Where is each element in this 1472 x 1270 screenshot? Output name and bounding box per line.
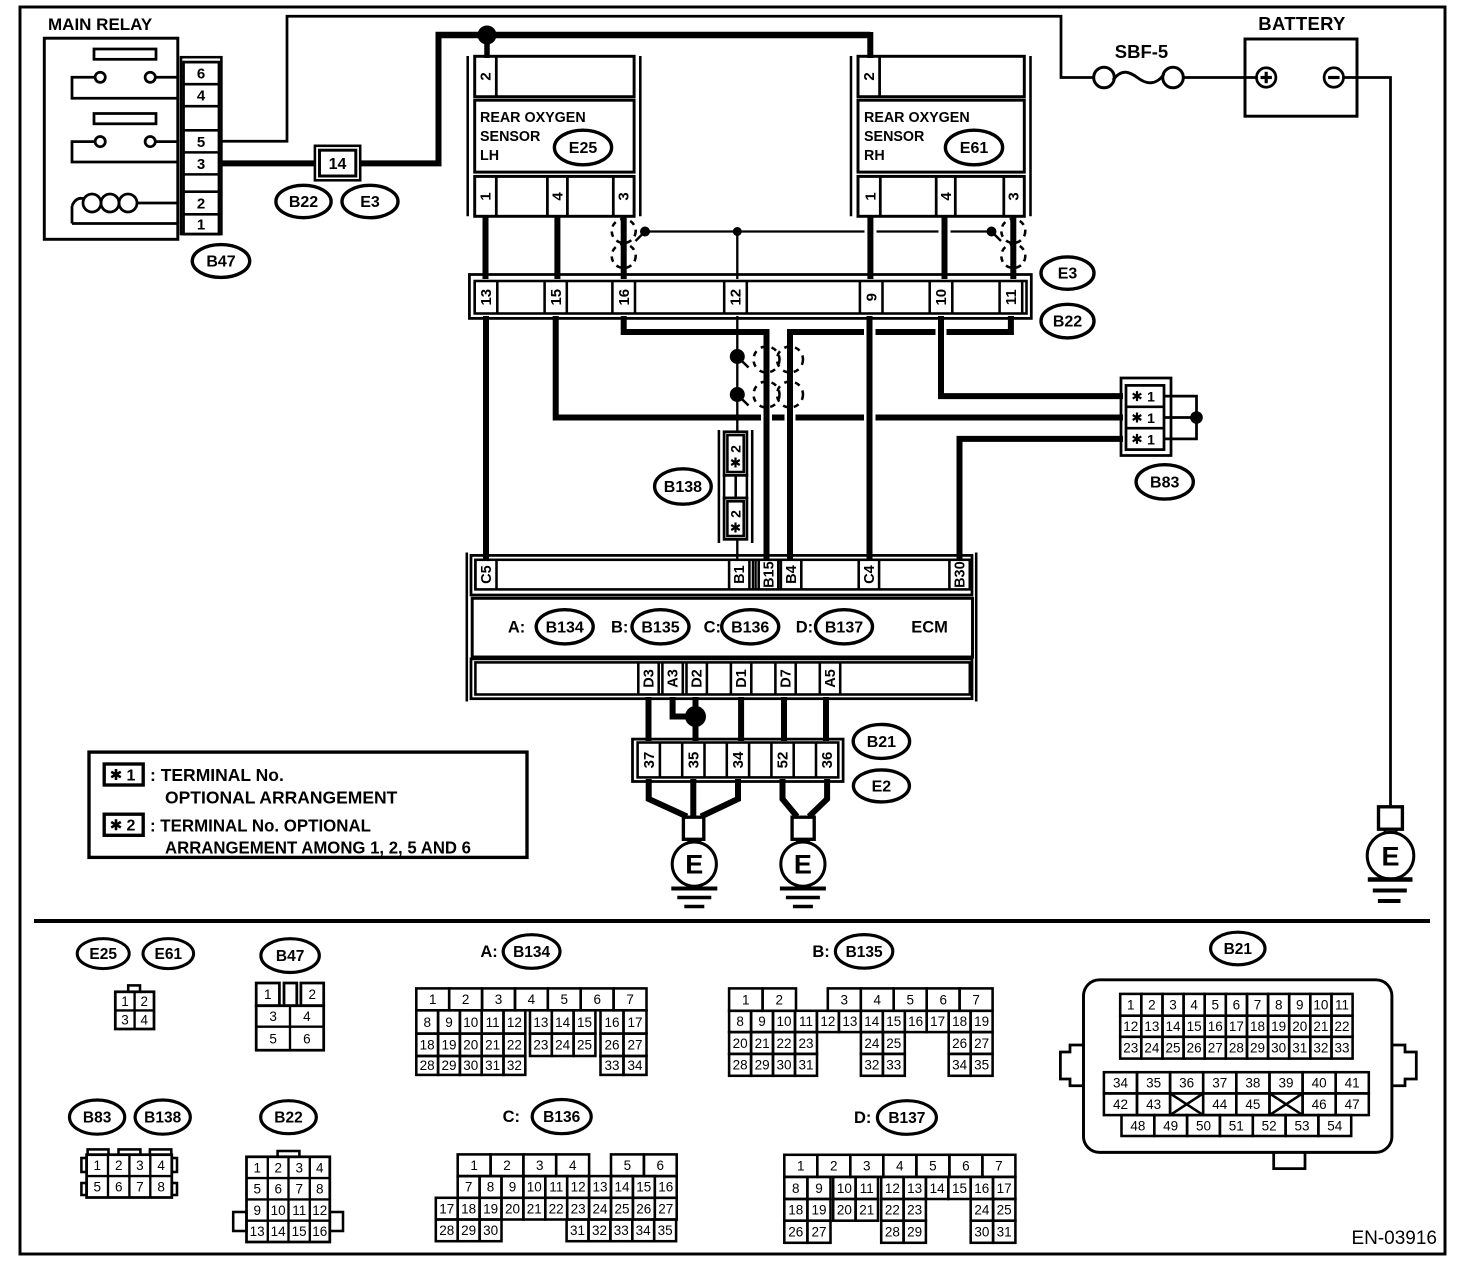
strip pin 11 xyxy=(998,281,1001,314)
svg-text:30: 30 xyxy=(776,1058,791,1073)
svg-text:2: 2 xyxy=(503,1158,511,1173)
svg-text:31: 31 xyxy=(570,1223,585,1238)
svg-text:16: 16 xyxy=(604,1015,619,1030)
svg-text:REAR OXYGEN: REAR OXYGEN xyxy=(864,110,970,126)
relay coil xyxy=(72,206,178,224)
svg-text:5: 5 xyxy=(624,1158,632,1173)
svg-text:14: 14 xyxy=(329,156,347,173)
svg-text:34: 34 xyxy=(1113,1076,1129,1091)
svg-text:12: 12 xyxy=(312,1203,327,1218)
junction dot A3/D2 xyxy=(685,706,706,727)
svg-text:E3: E3 xyxy=(360,194,380,211)
B138 middle cells xyxy=(724,475,747,498)
in-line connector B138 brackets xyxy=(718,430,721,543)
svg-text:ECM: ECM xyxy=(911,619,948,637)
svg-text:52: 52 xyxy=(775,752,792,769)
svg-text:5: 5 xyxy=(197,134,205,151)
ECM main box xyxy=(472,598,972,657)
svg-text:BATTERY: BATTERY xyxy=(1258,13,1346,34)
svg-text:1: 1 xyxy=(429,992,437,1007)
svg-text:7: 7 xyxy=(295,1182,303,1197)
ECM pin A5 xyxy=(819,662,822,694)
sensor E61 top connector pin 2 xyxy=(858,56,1024,96)
ground symbol E (battery) xyxy=(1379,807,1403,829)
svg-text:40: 40 xyxy=(1312,1076,1327,1091)
svg-text:25: 25 xyxy=(1165,1041,1180,1056)
svg-text:11: 11 xyxy=(1003,289,1020,305)
svg-text:32: 32 xyxy=(1313,1041,1328,1056)
svg-text:10: 10 xyxy=(933,289,950,306)
svg-text:37: 37 xyxy=(1212,1076,1227,1091)
svg-text:31: 31 xyxy=(997,1225,1012,1240)
svg-text:A:: A: xyxy=(508,619,525,637)
svg-text:MAIN RELAY: MAIN RELAY xyxy=(48,15,153,34)
svg-text:1: 1 xyxy=(1147,431,1155,447)
svg-text:RH: RH xyxy=(864,148,885,164)
svg-text:1: 1 xyxy=(478,192,495,200)
wire ECM D7 to 52 xyxy=(781,697,787,741)
svg-text:4: 4 xyxy=(303,1009,311,1024)
svg-text:A3: A3 xyxy=(666,669,682,688)
svg-text:6: 6 xyxy=(962,1159,970,1174)
svg-text:16: 16 xyxy=(312,1224,327,1239)
svg-text:2: 2 xyxy=(478,72,495,80)
svg-text:D7: D7 xyxy=(778,669,794,688)
junction dot on wire 12 lower xyxy=(730,387,745,402)
svg-text:B135: B135 xyxy=(641,619,679,636)
svg-text:B83: B83 xyxy=(1150,474,1179,491)
connector label B47 xyxy=(192,245,249,278)
main relay box xyxy=(44,38,178,239)
svg-text:10: 10 xyxy=(837,1181,852,1196)
B138 upper cell *2 xyxy=(724,432,747,476)
svg-text:34: 34 xyxy=(730,751,747,768)
svg-text:2: 2 xyxy=(462,992,470,1007)
wire bus to RH sensor pin 2 xyxy=(867,32,873,58)
svg-text:1: 1 xyxy=(264,987,272,1002)
svg-text:3: 3 xyxy=(1169,998,1177,1013)
svg-text:22: 22 xyxy=(507,1038,522,1053)
svg-text:2: 2 xyxy=(830,1159,838,1174)
svg-text:B:: B: xyxy=(611,619,628,637)
svg-text:11: 11 xyxy=(486,1015,500,1030)
svg-text:B:: B: xyxy=(812,943,829,961)
svg-text:25: 25 xyxy=(997,1203,1012,1218)
svg-text:32: 32 xyxy=(864,1058,879,1073)
svg-text:16: 16 xyxy=(616,289,633,306)
svg-text:17: 17 xyxy=(1229,1019,1244,1034)
B21 right ear xyxy=(1392,1045,1416,1086)
svg-text:15: 15 xyxy=(886,1014,901,1029)
svg-text:49: 49 xyxy=(1163,1118,1178,1133)
svg-text:C:: C: xyxy=(503,1108,520,1126)
svg-text:12: 12 xyxy=(571,1180,586,1195)
pin table A: B134 xyxy=(416,988,646,1075)
svg-text:2: 2 xyxy=(861,72,878,80)
svg-text:B22: B22 xyxy=(1053,314,1082,331)
svg-text:B22: B22 xyxy=(289,194,318,211)
svg-text:25: 25 xyxy=(577,1038,592,1053)
B21 pin grid bottom xyxy=(1104,1072,1369,1136)
connector B21 housing xyxy=(1084,980,1392,1153)
svg-text:1: 1 xyxy=(1147,410,1155,426)
svg-text:B134: B134 xyxy=(546,619,584,636)
svg-text:D:: D: xyxy=(796,619,813,637)
ECM top connector strip xyxy=(471,555,972,595)
wire ECM D3 to 37 xyxy=(646,697,652,741)
svg-text:17: 17 xyxy=(930,1014,945,1029)
svg-text:10: 10 xyxy=(271,1203,286,1218)
relay contact circles row 2 xyxy=(95,137,105,147)
svg-text:15: 15 xyxy=(636,1180,651,1195)
svg-text:B134: B134 xyxy=(513,944,550,961)
svg-text:44: 44 xyxy=(1212,1097,1228,1112)
svg-text:5: 5 xyxy=(1212,998,1220,1013)
sensor body E61 xyxy=(858,100,1024,172)
svg-text:3: 3 xyxy=(269,1009,277,1024)
svg-text:29: 29 xyxy=(441,1058,456,1073)
ECM pin A3 xyxy=(661,662,664,694)
power bus wire (top) xyxy=(436,32,871,39)
svg-text:9: 9 xyxy=(509,1180,517,1195)
svg-text:B21: B21 xyxy=(1224,941,1253,958)
wire LH pin 1 to strip 13 xyxy=(483,215,489,279)
pin table E25/E61 xyxy=(115,985,154,1029)
svg-text:1: 1 xyxy=(863,192,880,200)
connector label B47 (bottom) xyxy=(261,939,319,973)
pin table B22 xyxy=(233,1151,343,1242)
svg-text:29: 29 xyxy=(1250,1041,1265,1056)
svg-text:3: 3 xyxy=(863,1159,871,1174)
svg-text:15: 15 xyxy=(1187,1019,1202,1034)
svg-text:14: 14 xyxy=(555,1015,571,1030)
in-line connector symbol on B15 wire xyxy=(754,347,780,373)
svg-text:4: 4 xyxy=(938,192,955,201)
svg-text:24: 24 xyxy=(864,1036,880,1051)
svg-text:35: 35 xyxy=(686,752,703,769)
svg-text:3: 3 xyxy=(295,1160,303,1175)
wire strip 11 to ECM B4 xyxy=(790,316,1011,560)
svg-text:32: 32 xyxy=(507,1058,522,1073)
svg-text:28: 28 xyxy=(420,1058,435,1073)
svg-text:35: 35 xyxy=(658,1223,673,1238)
svg-text:20: 20 xyxy=(505,1202,520,1217)
svg-text:A:: A: xyxy=(480,943,497,961)
svg-text:27: 27 xyxy=(974,1036,989,1051)
svg-text:8: 8 xyxy=(316,1182,324,1197)
svg-text:D1: D1 xyxy=(734,669,750,688)
svg-text:11: 11 xyxy=(292,1203,306,1218)
svg-text:2: 2 xyxy=(274,1160,282,1175)
svg-text:B1: B1 xyxy=(732,565,748,584)
ECM pin B1 xyxy=(728,560,731,590)
connector label B83 xyxy=(1136,465,1193,499)
svg-text:12: 12 xyxy=(728,289,745,306)
svg-text:51: 51 xyxy=(1229,1118,1244,1133)
svg-text:28: 28 xyxy=(733,1058,748,1073)
svg-text:27: 27 xyxy=(811,1225,826,1240)
svg-text:1: 1 xyxy=(197,217,205,234)
connector label B22 (strip) xyxy=(1041,304,1094,338)
svg-text:6: 6 xyxy=(1233,998,1241,1013)
svg-text:47: 47 xyxy=(1345,1097,1360,1112)
svg-text:OPTIONAL ARRANGEMENT: OPTIONAL ARRANGEMENT xyxy=(165,787,398,807)
svg-text:7: 7 xyxy=(972,992,980,1007)
B21 pin grid top xyxy=(1120,994,1352,1059)
svg-text:46: 46 xyxy=(1312,1097,1327,1112)
svg-text:31: 31 xyxy=(1292,1041,1307,1056)
svg-text:B135: B135 xyxy=(846,944,883,961)
fuse SBF-5 xyxy=(1094,67,1115,88)
svg-text:1: 1 xyxy=(127,768,136,785)
svg-text:15: 15 xyxy=(577,1015,592,1030)
svg-text:1: 1 xyxy=(94,1158,102,1173)
svg-text:24: 24 xyxy=(592,1202,608,1217)
svg-text:23: 23 xyxy=(571,1202,586,1217)
svg-text:8: 8 xyxy=(423,1015,431,1030)
svg-text:14: 14 xyxy=(864,1014,880,1029)
svg-text:B22: B22 xyxy=(274,1110,302,1127)
svg-text:22: 22 xyxy=(1334,1019,1349,1034)
ECM pin C4 xyxy=(857,560,860,590)
svg-text:16: 16 xyxy=(658,1180,673,1195)
connector label B22 (bottom) xyxy=(261,1101,317,1134)
battery box xyxy=(1245,39,1357,116)
svg-text:3: 3 xyxy=(841,992,849,1007)
svg-text:48: 48 xyxy=(1130,1118,1145,1133)
svg-text:2: 2 xyxy=(115,1158,123,1173)
ECM pin D1 xyxy=(730,662,733,694)
svg-text:1: 1 xyxy=(121,994,129,1009)
wire LH pin 4 to strip 15 xyxy=(554,215,560,279)
svg-text:: TERMINAL No.: : TERMINAL No. xyxy=(150,765,284,785)
svg-text:10: 10 xyxy=(776,1014,791,1029)
svg-text:13: 13 xyxy=(250,1224,265,1239)
svg-text:9: 9 xyxy=(1296,998,1304,1013)
sensor body E25 xyxy=(475,100,634,172)
svg-text:39: 39 xyxy=(1278,1076,1293,1091)
svg-text:13: 13 xyxy=(842,1014,857,1029)
svg-text:22: 22 xyxy=(885,1203,900,1218)
svg-text:6: 6 xyxy=(274,1182,282,1197)
svg-text:5: 5 xyxy=(269,1031,277,1046)
svg-text:2: 2 xyxy=(776,992,784,1007)
svg-text:9: 9 xyxy=(815,1181,823,1196)
sensor E25 bottom connector pins 1 4 3 xyxy=(475,176,634,216)
battery plus terminal xyxy=(1257,68,1276,87)
svg-text:6: 6 xyxy=(657,1158,665,1173)
relay contact wire row 2 xyxy=(72,142,178,162)
in-line connector 14 xyxy=(315,146,360,181)
svg-text:E: E xyxy=(685,850,703,880)
svg-text:18: 18 xyxy=(1250,1019,1265,1034)
svg-text:15: 15 xyxy=(548,289,565,306)
svg-text:D2: D2 xyxy=(690,669,706,688)
connector B83 cells *1 xyxy=(1126,385,1164,449)
svg-text:6: 6 xyxy=(939,992,947,1007)
relay contact bar 2 xyxy=(94,114,156,124)
svg-text:1: 1 xyxy=(742,992,750,1007)
svg-text:5: 5 xyxy=(561,992,569,1007)
svg-text:27: 27 xyxy=(658,1202,673,1217)
svg-text:2: 2 xyxy=(127,818,136,835)
svg-text:15: 15 xyxy=(952,1181,967,1196)
svg-text:16: 16 xyxy=(974,1181,989,1196)
svg-text:23: 23 xyxy=(533,1038,548,1053)
wire RH pin 1 to strip 9 xyxy=(867,215,873,279)
svg-text:21: 21 xyxy=(859,1203,874,1218)
legend *2 symbol xyxy=(104,814,143,835)
svg-text:19: 19 xyxy=(1271,1019,1286,1034)
svg-text:13: 13 xyxy=(478,289,495,306)
connector B47 strip xyxy=(181,57,221,234)
svg-text:10: 10 xyxy=(463,1015,478,1030)
svg-text:27: 27 xyxy=(1208,1041,1223,1056)
svg-text:52: 52 xyxy=(1262,1118,1277,1133)
sensor E61 bottom connector pins 1 4 3 xyxy=(858,176,1024,216)
wire ECM A5 to 36 xyxy=(823,697,829,741)
wire RH pin 4 to strip 10 xyxy=(942,215,948,279)
svg-text:A5: A5 xyxy=(823,669,839,688)
svg-text:C4: C4 xyxy=(862,565,878,584)
svg-text:1: 1 xyxy=(797,1159,805,1174)
svg-text:8: 8 xyxy=(792,1181,800,1196)
svg-text:25: 25 xyxy=(614,1202,629,1217)
svg-text:5: 5 xyxy=(94,1180,102,1195)
svg-text:29: 29 xyxy=(755,1058,770,1073)
connector strip B22/E3 xyxy=(469,275,1031,319)
svg-text:24: 24 xyxy=(974,1203,990,1218)
svg-text:26: 26 xyxy=(604,1038,619,1053)
svg-text:2: 2 xyxy=(141,994,149,1009)
svg-text:B21: B21 xyxy=(867,734,896,751)
ECM pin B4 xyxy=(780,560,783,590)
svg-text:23: 23 xyxy=(907,1203,922,1218)
svg-text:1: 1 xyxy=(1147,389,1155,405)
svg-text:REAR OXYGEN: REAR OXYGEN xyxy=(480,110,586,126)
ECM pin B15 xyxy=(757,560,760,590)
svg-text:4: 4 xyxy=(197,88,206,105)
svg-text:9: 9 xyxy=(758,1014,766,1029)
svg-text:B138: B138 xyxy=(144,1110,181,1127)
sensor E25 top connector pin 2 xyxy=(475,56,634,96)
svg-text:13: 13 xyxy=(592,1180,607,1195)
svg-text:11: 11 xyxy=(860,1181,874,1196)
ground symbol E (left) xyxy=(683,817,703,839)
svg-text:5: 5 xyxy=(253,1182,261,1197)
svg-text:19: 19 xyxy=(811,1203,826,1218)
svg-text:2: 2 xyxy=(197,196,205,213)
svg-text:28: 28 xyxy=(439,1223,454,1238)
svg-text:29: 29 xyxy=(907,1225,922,1240)
svg-text:8: 8 xyxy=(487,1180,495,1195)
svg-text:12: 12 xyxy=(820,1014,835,1029)
B21 crossed-out cells xyxy=(1170,1093,1203,1115)
svg-text:10: 10 xyxy=(1313,998,1328,1013)
svg-text:33: 33 xyxy=(604,1058,619,1073)
strip pin 10 xyxy=(928,281,931,314)
connector label E61 (bottom) xyxy=(143,939,194,969)
svg-text:34: 34 xyxy=(627,1058,643,1073)
relay contact wire row 1 xyxy=(72,77,178,98)
svg-text:6: 6 xyxy=(115,1180,123,1195)
wire LH pin 3 to strip 16 xyxy=(621,215,627,279)
svg-text:18: 18 xyxy=(420,1038,435,1053)
svg-text:20: 20 xyxy=(1292,1019,1307,1034)
pin table D: B137 xyxy=(784,1155,1015,1243)
svg-text:2: 2 xyxy=(1148,998,1156,1013)
wire from relay pin 3 to connector 14 xyxy=(221,160,315,166)
svg-text:: TERMINAL No. OPTIONAL: : TERMINAL No. OPTIONAL xyxy=(150,815,371,835)
svg-text:23: 23 xyxy=(1123,1041,1138,1056)
svg-text:7: 7 xyxy=(626,992,634,1007)
junction dot left xyxy=(640,227,650,237)
svg-text:B138: B138 xyxy=(664,479,702,496)
wire strip 10 to B83 top pin xyxy=(941,316,1123,396)
svg-text:4: 4 xyxy=(569,1158,577,1173)
svg-text:D3: D3 xyxy=(641,669,657,688)
svg-text:30: 30 xyxy=(463,1058,478,1073)
svg-text:22: 22 xyxy=(549,1202,564,1217)
pin table B83/B138 xyxy=(81,1149,177,1197)
connector label B22 xyxy=(276,185,331,217)
svg-text:9: 9 xyxy=(863,293,880,301)
svg-text:14: 14 xyxy=(1165,1019,1181,1034)
svg-text:11: 11 xyxy=(799,1014,813,1029)
svg-text:19: 19 xyxy=(441,1038,456,1053)
svg-text:30: 30 xyxy=(1271,1041,1286,1056)
svg-text:4: 4 xyxy=(550,192,567,201)
svg-text:4: 4 xyxy=(873,992,881,1007)
B21 bottom tab xyxy=(1274,1152,1305,1168)
svg-text:31: 31 xyxy=(485,1058,500,1073)
svg-text:34: 34 xyxy=(952,1058,968,1073)
connector B83 shell xyxy=(1121,378,1171,456)
svg-text:19: 19 xyxy=(974,1014,989,1029)
svg-text:12: 12 xyxy=(885,1181,900,1196)
ECM bracket lines xyxy=(466,553,469,702)
svg-text:29: 29 xyxy=(461,1223,476,1238)
wire strip 16 to ECM B15 xyxy=(624,316,767,560)
svg-text:25: 25 xyxy=(886,1036,901,1051)
svg-text:17: 17 xyxy=(439,1202,454,1217)
ground E (right) wires xyxy=(783,779,798,817)
svg-text:C:: C: xyxy=(704,619,721,637)
junction dot on wire 12 upper xyxy=(730,349,745,364)
relay contact circles row 1 xyxy=(95,72,105,82)
svg-text:28: 28 xyxy=(885,1225,900,1240)
svg-text:14: 14 xyxy=(271,1224,287,1239)
svg-text:19: 19 xyxy=(483,1202,498,1217)
svg-text:B83: B83 xyxy=(83,1110,112,1127)
svg-text:13: 13 xyxy=(907,1181,922,1196)
wire fuse to battery xyxy=(1184,76,1257,79)
svg-text:3: 3 xyxy=(136,1158,144,1173)
svg-text:EN-03916: EN-03916 xyxy=(1351,1228,1437,1249)
svg-text:30: 30 xyxy=(483,1223,498,1238)
svg-text:4: 4 xyxy=(141,1013,149,1028)
svg-text:6: 6 xyxy=(593,992,601,1007)
svg-text:18: 18 xyxy=(788,1203,803,1218)
svg-text:37: 37 xyxy=(641,752,658,769)
svg-text:43: 43 xyxy=(1146,1097,1161,1112)
svg-text:50: 50 xyxy=(1196,1118,1211,1133)
wire from relay pin 5 to battery fuse (thin) xyxy=(221,16,1093,141)
svg-text:12: 12 xyxy=(507,1015,522,1030)
svg-text:8: 8 xyxy=(736,1014,744,1029)
svg-text:35: 35 xyxy=(974,1058,989,1073)
svg-text:3: 3 xyxy=(1005,192,1022,200)
